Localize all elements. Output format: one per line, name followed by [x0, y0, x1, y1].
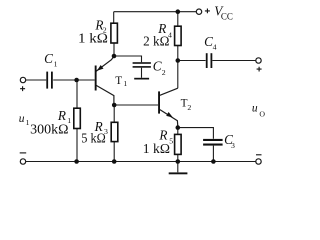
svg-text:1 kΩ: 1 kΩ	[143, 141, 170, 156]
svg-text:300kΩ: 300kΩ	[30, 122, 68, 137]
svg-text:CC: CC	[221, 12, 233, 22]
svg-text:1: 1	[54, 60, 58, 69]
svg-text:C: C	[44, 51, 53, 66]
svg-text:2 kΩ: 2 kΩ	[143, 33, 169, 48]
svg-text:1: 1	[26, 118, 30, 127]
svg-text:3: 3	[231, 141, 235, 150]
svg-text:u: u	[19, 113, 25, 125]
svg-text:2: 2	[162, 68, 166, 77]
svg-text:2: 2	[187, 103, 191, 112]
svg-text:O: O	[259, 109, 265, 118]
svg-text:u: u	[252, 103, 258, 115]
svg-text:T: T	[115, 75, 122, 87]
svg-text:1 kΩ: 1 kΩ	[78, 31, 108, 46]
svg-text:4: 4	[213, 42, 217, 51]
svg-text:5 kΩ: 5 kΩ	[81, 130, 106, 145]
svg-text:1: 1	[123, 79, 127, 88]
svg-text:C: C	[153, 59, 162, 74]
